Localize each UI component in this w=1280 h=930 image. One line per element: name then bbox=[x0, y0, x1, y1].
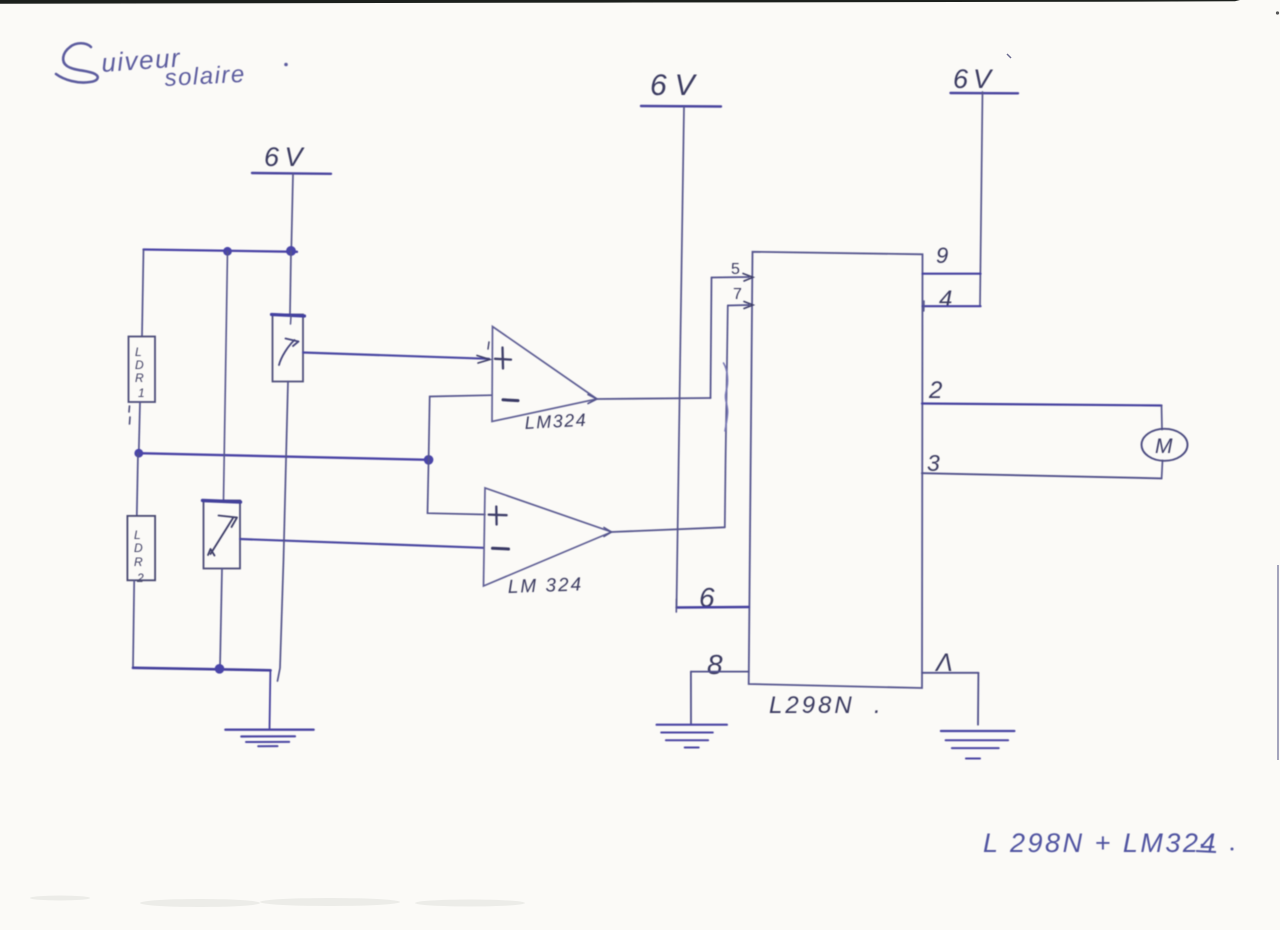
svg-text:R: R bbox=[135, 371, 144, 385]
svg-text:6V: 6V bbox=[953, 64, 996, 94]
svg-text:3: 3 bbox=[927, 450, 940, 476]
svg-text:1: 1 bbox=[138, 386, 145, 400]
svg-text:L 298N + LM324: L 298N + LM324 bbox=[983, 828, 1218, 858]
svg-text:L: L bbox=[134, 528, 141, 542]
svg-text:D: D bbox=[134, 541, 143, 555]
svg-text:4: 4 bbox=[939, 286, 952, 313]
svg-text:L: L bbox=[135, 345, 142, 359]
svg-text:9: 9 bbox=[936, 243, 948, 268]
svg-text:LM 324: LM 324 bbox=[507, 574, 583, 598]
svg-text:L298N .: L298N . bbox=[769, 692, 884, 719]
svg-text:D: D bbox=[135, 358, 144, 372]
svg-text:6V: 6V bbox=[650, 69, 703, 102]
svg-text:6V: 6V bbox=[264, 142, 308, 172]
svg-text:M: M bbox=[1155, 435, 1173, 458]
svg-text:7: 7 bbox=[733, 286, 742, 303]
svg-text:2: 2 bbox=[928, 377, 942, 404]
svg-text:solaire: solaire bbox=[164, 61, 247, 92]
svg-text:2: 2 bbox=[136, 571, 144, 585]
svg-text:R: R bbox=[134, 555, 143, 569]
svg-text:8: 8 bbox=[707, 649, 723, 680]
svg-text:5: 5 bbox=[731, 261, 740, 278]
